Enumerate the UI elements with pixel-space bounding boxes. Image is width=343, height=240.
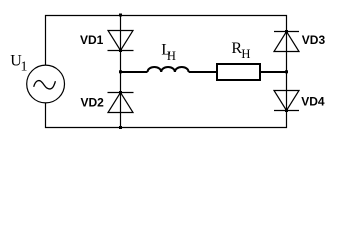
junction dot VD2 cathode <box>119 91 122 94</box>
junction dot VD3 cathode <box>285 30 288 33</box>
junction dot top of VD1 branch <box>119 14 122 17</box>
wire mid left <box>121 71 148 73</box>
junction dot right mid node <box>285 70 288 73</box>
diode VD3 <box>274 32 299 52</box>
svg-text:VD3: VD3 <box>302 33 326 47</box>
svg-text:H: H <box>241 47 250 61</box>
AC source U1 sine wave <box>34 81 56 89</box>
junction dot VD1 cathode <box>119 49 122 52</box>
svg-text:VD1: VD1 <box>80 33 104 47</box>
diode VD4 <box>274 91 299 111</box>
AC source U1 circle <box>27 65 65 103</box>
svg-text:VD4: VD4 <box>301 94 325 108</box>
svg-text:H: H <box>167 49 176 63</box>
junction dot left mid node <box>119 70 122 73</box>
junction dot VD4 cathode <box>285 109 288 112</box>
inductor LH <box>148 67 189 72</box>
wire mid center <box>189 71 217 73</box>
resistor RH <box>217 64 260 80</box>
diode VD2 <box>108 93 134 113</box>
wire left column (VD1/VD2 branch) <box>120 16 122 128</box>
svg-text:1: 1 <box>21 60 28 75</box>
wire mid right <box>260 71 287 73</box>
wire outer loop (top, right column, bottom) <box>46 16 287 128</box>
diode VD1 <box>108 31 134 51</box>
junction dot bottom of VD2 branch <box>119 126 122 129</box>
svg-text:VD2: VD2 <box>81 95 105 109</box>
